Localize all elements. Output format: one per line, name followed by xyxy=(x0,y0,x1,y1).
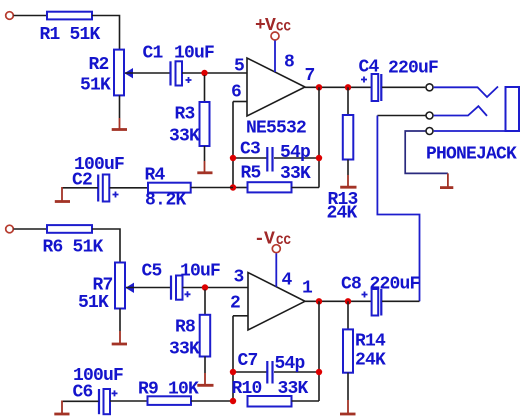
wire -Vcc to pin 4 xyxy=(275,253,277,286)
svg-text:6: 6 xyxy=(231,83,241,103)
capacitor C3 xyxy=(266,147,268,172)
svg-text:R10: R10 xyxy=(232,379,262,399)
ground below R8 xyxy=(204,373,206,385)
inverting node column wire (bottom) xyxy=(232,316,234,401)
svg-text:-V: -V xyxy=(254,230,275,250)
wire R14 to ground xyxy=(347,373,349,400)
capacitor C4 (electrolytic) xyxy=(372,74,379,101)
wire R8 to ground xyxy=(204,357,206,374)
plus sign C8 xyxy=(362,292,368,298)
inverting node column wire xyxy=(232,102,234,188)
wire input to R1 xyxy=(14,15,48,17)
potentiometer R2 body xyxy=(114,50,124,96)
wire C3 left xyxy=(233,157,267,159)
svg-text:PHONEJACK: PHONEJACK xyxy=(426,144,517,164)
jack sleeve terminal circle xyxy=(426,128,433,135)
potentiometer R7 wiper arrow xyxy=(126,283,135,293)
svg-text:54p: 54p xyxy=(275,354,305,374)
resistor R8 xyxy=(200,315,211,357)
plus sign C4 xyxy=(361,77,367,83)
ground below R3 xyxy=(204,161,206,172)
svg-text:4: 4 xyxy=(282,270,293,290)
resistor R1 xyxy=(47,12,92,20)
svg-text:C1: C1 xyxy=(143,44,164,64)
wire R4 right to node xyxy=(191,187,233,189)
jack tip contact xyxy=(434,87,498,98)
node junction at C5/R8 xyxy=(202,284,208,290)
svg-text:R2: R2 xyxy=(89,55,109,75)
node junction at C1/R3 xyxy=(201,70,207,76)
node C3 left xyxy=(230,155,236,161)
-Vcc terminal circle xyxy=(272,245,280,253)
svg-text:R6 51K: R6 51K xyxy=(43,238,104,258)
jack body xyxy=(506,87,520,131)
svg-text:10uF: 10uF xyxy=(174,44,214,64)
ground below R2 xyxy=(119,118,121,129)
ground below C6 xyxy=(54,413,69,416)
pin 6 stub wire xyxy=(233,101,247,103)
svg-text:R5: R5 xyxy=(241,164,261,184)
node output to R14 xyxy=(345,298,351,304)
jack ring terminal circle xyxy=(426,112,433,119)
wire C3 right xyxy=(274,157,319,159)
svg-text:8: 8 xyxy=(284,53,294,73)
potentiometer R2 wiper arrow xyxy=(125,68,134,78)
node C7 left xyxy=(230,369,236,375)
svg-text:33K: 33K xyxy=(280,164,311,184)
resistor R14 xyxy=(347,301,349,329)
svg-text:C6: C6 xyxy=(73,383,93,403)
svg-text:C8: C8 xyxy=(341,275,361,295)
resistor R6 xyxy=(47,225,92,233)
resistor R5 xyxy=(248,182,292,192)
plus sign C2 xyxy=(113,192,119,198)
svg-text:33K: 33K xyxy=(169,340,200,360)
jack sleeve wire xyxy=(434,130,506,132)
svg-text:1: 1 xyxy=(302,279,313,299)
svg-text:NE5532: NE5532 xyxy=(246,119,306,139)
svg-text:33K: 33K xyxy=(169,127,200,147)
node output to R13 xyxy=(345,84,351,90)
feedback column wire (bottom output side) xyxy=(318,301,320,401)
svg-text:8.: 8. xyxy=(145,191,165,211)
svg-text:24K: 24K xyxy=(355,350,386,370)
svg-text:3: 3 xyxy=(234,268,244,288)
svg-text:R4: R4 xyxy=(145,166,166,186)
plus sign C6 xyxy=(112,390,118,396)
svg-text:R14: R14 xyxy=(355,332,386,352)
pin 2 stub wire xyxy=(233,315,248,317)
op-amp U1A triangle xyxy=(247,58,305,116)
wire R1 to corner and down to R2 xyxy=(92,16,120,50)
wire ring to channel loop xyxy=(377,115,425,117)
loop wire ring contact to C8 output xyxy=(377,116,419,302)
svg-text:220uF: 220uF xyxy=(388,59,438,79)
wire C4 to jack tip xyxy=(382,86,425,88)
ground below R7 xyxy=(119,331,121,344)
wire R13 to ground xyxy=(347,160,349,176)
resistor R10 xyxy=(248,396,292,407)
svg-text:10uF: 10uF xyxy=(180,262,220,282)
wire R5 left xyxy=(233,187,248,189)
op-amp U1B triangle xyxy=(248,273,305,331)
wire C7 left xyxy=(233,371,267,373)
svg-text:7: 7 xyxy=(305,66,315,86)
svg-text:C7: C7 xyxy=(238,351,258,371)
resistor R4 xyxy=(148,183,191,193)
input terminal circle (bottom) xyxy=(6,225,14,233)
wire R5 right xyxy=(292,187,320,189)
svg-text:C3: C3 xyxy=(240,140,260,160)
node R9/R10 xyxy=(230,398,236,404)
wire C5 to op-amp pin 3 xyxy=(183,287,249,289)
wire C1 to op-amp pin 5 xyxy=(182,72,247,74)
wire op-amp output to C8 xyxy=(305,300,372,302)
svg-text:33K: 33K xyxy=(278,379,309,399)
node R5 left / R4 right xyxy=(230,184,236,190)
capacitor C7 xyxy=(266,361,268,384)
node output feedback xyxy=(316,84,322,90)
wire R7 bottom to ground xyxy=(119,309,121,332)
ground below R13 xyxy=(347,175,349,187)
wire C6 left to ground xyxy=(62,400,99,402)
wire input to R6 xyxy=(14,228,48,230)
jack ring contact xyxy=(434,106,487,116)
wire C6 right to R9 xyxy=(110,400,148,402)
capacitor C6 (electrolytic) xyxy=(98,389,100,414)
wire C2 right to R4 xyxy=(110,187,149,189)
svg-text:R9 10K: R9 10K xyxy=(138,380,199,400)
input terminal circle (top) xyxy=(6,12,14,20)
wire op-amp output to C4 xyxy=(305,86,372,88)
ground below C2 xyxy=(55,200,70,203)
svg-text:R3: R3 xyxy=(175,105,195,125)
capacitor C8 (electrolytic) xyxy=(372,289,379,316)
capacitor C2 (electrolytic) xyxy=(97,175,99,202)
plus sign C1 xyxy=(186,77,192,83)
ground below jack xyxy=(447,173,449,187)
node output feedback (bottom) xyxy=(316,298,322,304)
svg-text:54p: 54p xyxy=(280,143,310,163)
svg-text:220uF: 220uF xyxy=(370,275,420,295)
wire wiper to C1 xyxy=(125,72,170,74)
potentiometer R7 body xyxy=(115,263,125,309)
wire R2 bottom to ground xyxy=(119,95,121,118)
node C7 right xyxy=(316,369,322,375)
svg-text:CC: CC xyxy=(276,21,292,35)
node C3 right xyxy=(316,155,322,161)
wire C2 left to ground xyxy=(62,187,98,189)
wire node down to R8 xyxy=(204,290,206,315)
ground below R14 xyxy=(347,400,349,414)
svg-text:C4: C4 xyxy=(359,58,380,78)
wire wiper to C5 xyxy=(126,287,171,289)
wire +Vcc to pin 8 xyxy=(274,41,276,73)
wire node down to R3 xyxy=(204,75,206,102)
resistor R3 xyxy=(200,102,210,146)
plus sign C5 xyxy=(185,291,191,297)
wire R3 to ground xyxy=(204,146,206,161)
jack tip terminal circle xyxy=(426,84,433,91)
wire R6 to corner and down to R7 xyxy=(92,229,120,263)
svg-text:5: 5 xyxy=(234,57,244,77)
svg-text:24K: 24K xyxy=(327,204,358,224)
svg-text:51K: 51K xyxy=(80,76,111,96)
wire C7 right xyxy=(274,371,319,373)
svg-text:R8: R8 xyxy=(175,318,195,338)
wire C8 right to loop xyxy=(382,300,420,302)
capacitor C5 (electrolytic) xyxy=(170,276,172,300)
svg-text:C5: C5 xyxy=(142,262,162,282)
svg-text:51K: 51K xyxy=(78,293,109,313)
wire R10 right xyxy=(292,400,320,402)
resistor R9 xyxy=(148,396,192,405)
svg-text:2K: 2K xyxy=(166,191,187,211)
svg-text:R1 51K: R1 51K xyxy=(40,25,101,45)
svg-text:2: 2 xyxy=(230,294,240,314)
feedback column wire (output side) xyxy=(318,87,320,187)
resistor R13 xyxy=(347,87,349,115)
capacitor C1 (electrolytic) xyxy=(169,61,171,85)
+Vcc terminal circle xyxy=(271,32,279,40)
wire R9 right to node xyxy=(191,400,233,402)
wire sleeve to ground xyxy=(405,131,448,173)
